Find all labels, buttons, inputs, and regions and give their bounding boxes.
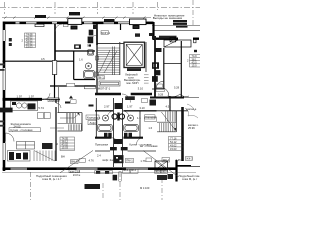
svg-text:лифт. 2шт: лифт. 2шт bbox=[102, 158, 115, 162]
svg-text:4.53: 4.53 bbox=[166, 104, 172, 108]
svg-text:Т-1: Т-1 bbox=[106, 87, 111, 91]
svg-text:43.02: 43.02 bbox=[170, 143, 177, 147]
svg-text:1.6: 1.6 bbox=[137, 116, 141, 120]
svg-text:ЖК2-4: ЖК2-4 bbox=[123, 169, 131, 172]
svg-text:15 X 15: 15 X 15 bbox=[70, 13, 79, 16]
svg-text:ая - столовая: ая - столовая bbox=[140, 144, 158, 148]
svg-text:ЖК-6: ЖК-6 bbox=[155, 171, 162, 174]
svg-text:1.97: 1.97 bbox=[17, 94, 23, 98]
svg-text:Коридор: Коридор bbox=[49, 98, 60, 102]
svg-text:ПМ-1: ПМ-1 bbox=[126, 159, 133, 163]
svg-text:Прихожая: Прихожая bbox=[95, 143, 108, 147]
svg-text:2.97: 2.97 bbox=[104, 105, 110, 109]
svg-text:1.6: 1.6 bbox=[148, 126, 152, 130]
svg-text:15 X 15: 15 X 15 bbox=[36, 16, 45, 19]
svg-text:1.97: 1.97 bbox=[127, 105, 133, 109]
svg-text:ЛК-1: ЛК-1 bbox=[98, 76, 104, 80]
svg-text:ЖК2+1Б.С: ЖК2+1Б.С bbox=[174, 21, 184, 23]
svg-text:2.4: 2.4 bbox=[97, 154, 101, 158]
svg-text:15.0: 15.0 bbox=[192, 64, 198, 68]
svg-text:15.03: 15.03 bbox=[26, 44, 33, 48]
svg-text:4.5: 4.5 bbox=[41, 57, 45, 61]
svg-text:ВН: ВН bbox=[61, 155, 65, 159]
svg-text:1.97: 1.97 bbox=[29, 94, 35, 98]
svg-text:этаж М, (н.т: этаж М, (н.т bbox=[182, 177, 198, 181]
svg-text:ВН-1: ВН-1 bbox=[71, 160, 78, 164]
svg-text:М 1:100: М 1:100 bbox=[140, 186, 150, 190]
svg-text:1.6: 1.6 bbox=[97, 116, 101, 120]
svg-text:ЖК2+1Б.Л: ЖК2+1Б.Л bbox=[174, 24, 184, 26]
svg-text:Выгоды не значения: Выгоды не значения bbox=[153, 16, 183, 20]
svg-text:15.03: 15.03 bbox=[62, 146, 69, 150]
svg-text:этаж М, (н.т.1.7: этаж М, (н.т.1.7 bbox=[42, 177, 62, 181]
svg-text:9.28: 9.28 bbox=[158, 93, 164, 97]
svg-text:77.16: 77.16 bbox=[170, 136, 177, 140]
svg-text:пож. МОП: пож. МОП bbox=[126, 81, 139, 85]
svg-text:3.10: 3.10 bbox=[138, 87, 144, 91]
svg-text:1.6: 1.6 bbox=[79, 58, 83, 62]
svg-text:15 X 15: 15 X 15 bbox=[105, 20, 114, 23]
svg-text:23.8 м: 23.8 м bbox=[73, 174, 81, 177]
svg-text:82.4: 82.4 bbox=[131, 169, 136, 172]
svg-text:ЖК-4: ЖК-4 bbox=[162, 171, 169, 174]
svg-text:Лифт: Лифт bbox=[90, 121, 97, 125]
svg-text:15.03: 15.03 bbox=[170, 147, 177, 151]
svg-text:Кухня - столовая: Кухня - столовая bbox=[11, 128, 33, 132]
svg-text:4.76: 4.76 bbox=[89, 159, 95, 163]
svg-text:дом 23.8: дом 23.8 bbox=[70, 170, 81, 173]
svg-text:25.96: 25.96 bbox=[188, 126, 195, 130]
svg-text:ЖК-1: ЖК-1 bbox=[163, 158, 170, 162]
svg-text:1.76: 1.76 bbox=[140, 159, 146, 163]
svg-text:3.10: 3.10 bbox=[139, 106, 145, 110]
svg-text:3.10: 3.10 bbox=[116, 106, 122, 110]
svg-text:5.28: 5.28 bbox=[174, 85, 180, 89]
svg-text:54.12: 54.12 bbox=[170, 140, 177, 144]
svg-text:9.5: 9.5 bbox=[87, 43, 91, 47]
svg-text:ЖК-3: ЖК-3 bbox=[186, 157, 193, 161]
svg-text:5.74: 5.74 bbox=[38, 106, 44, 110]
svg-text:ЖК2+1Б: ЖК2+1Б bbox=[177, 26, 185, 28]
svg-text:7.35: 7.35 bbox=[176, 158, 182, 162]
